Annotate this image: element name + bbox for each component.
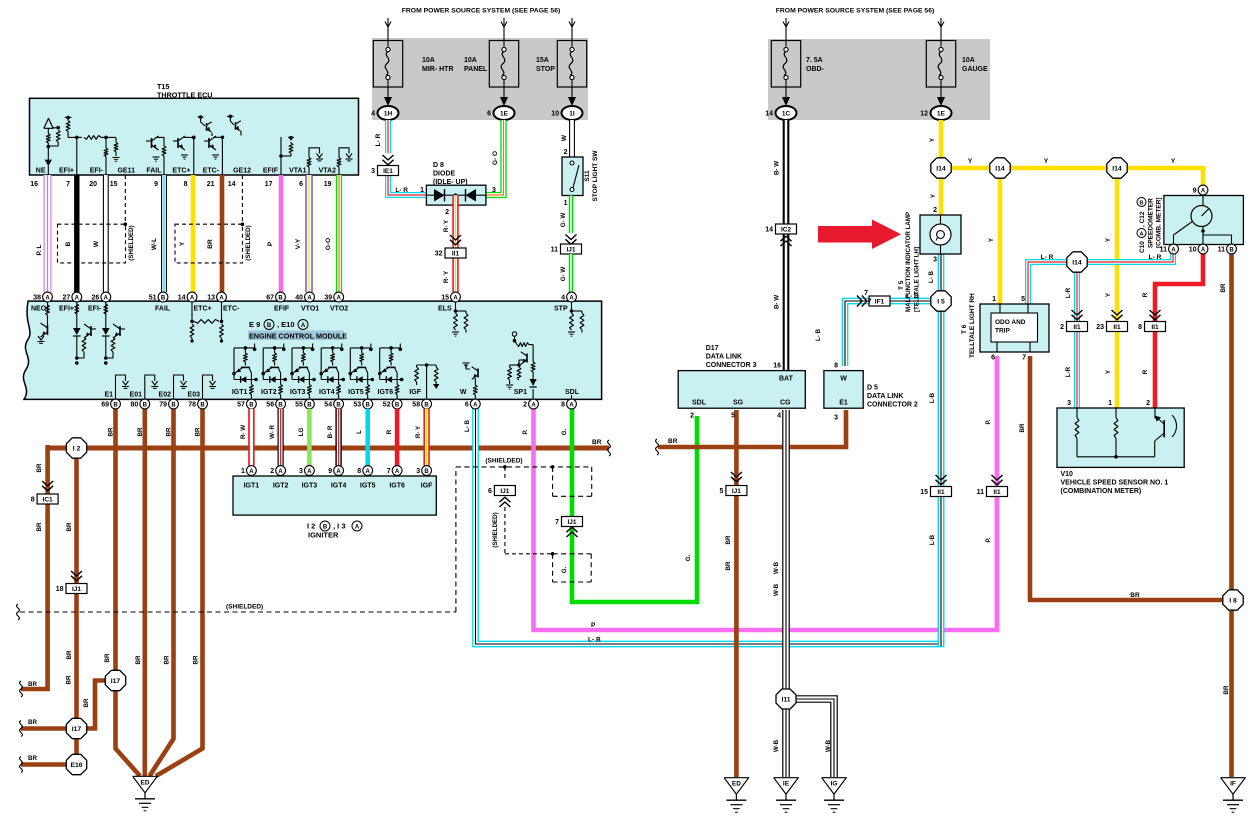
svg-text:11: 11 xyxy=(977,489,985,496)
svg-text:(SHIELDED): (SHIELDED) xyxy=(485,458,522,465)
svg-text:80: 80 xyxy=(131,402,139,409)
svg-text:W: W xyxy=(561,134,568,141)
connector IE1 xyxy=(378,166,399,176)
svg-text:ETC-: ETC- xyxy=(203,168,220,175)
svg-text:STOP: STOP xyxy=(536,66,555,73)
svg-text:W: W xyxy=(840,376,847,383)
wire LG IGT3 xyxy=(307,409,312,466)
svg-text:ETC+: ETC+ xyxy=(194,306,212,313)
svg-text:CONNECTOR 2: CONNECTOR 2 xyxy=(867,402,918,409)
svg-text:8: 8 xyxy=(561,402,565,409)
svg-text:SG: SG xyxy=(733,400,744,407)
svg-text:C10: C10 xyxy=(1139,241,1146,253)
ECM bottom pin 55B xyxy=(305,399,315,409)
svg-text:D 8: D 8 xyxy=(433,162,444,169)
svg-text:OBD-: OBD- xyxy=(806,66,825,73)
svg-text:W: W xyxy=(93,240,100,247)
svg-text:W: W xyxy=(460,389,467,396)
svg-text:11: 11 xyxy=(551,247,559,254)
svg-text:E01: E01 xyxy=(130,392,143,399)
svg-text:L-B: L-B xyxy=(929,392,936,403)
svg-text:12: 12 xyxy=(920,111,928,118)
svg-text:BR: BR xyxy=(193,655,200,664)
break BR to D5 xyxy=(656,439,659,455)
node I5 xyxy=(931,291,951,311)
svg-text:IGT6: IGT6 xyxy=(389,483,405,490)
svg-text:A: A xyxy=(307,469,312,475)
svg-text:B- R: B- R xyxy=(327,425,334,438)
ECM bottom pin 80B xyxy=(140,399,150,409)
svg-text:40: 40 xyxy=(295,295,303,302)
svg-text:BR: BR xyxy=(36,463,43,472)
svg-text:10A: 10A xyxy=(962,57,975,64)
T15 ETC- upper transistor xyxy=(229,115,233,119)
svg-text:IGT1: IGT1 xyxy=(232,389,248,396)
svg-text:1: 1 xyxy=(420,187,424,194)
connector 1E left xyxy=(494,106,515,120)
svg-text:A: A xyxy=(219,295,224,301)
svg-text:15A: 15A xyxy=(536,57,549,64)
II1 column chevrons and boxes xyxy=(1072,310,1083,315)
connector II1 32 xyxy=(445,248,466,258)
svg-text:FROM POWER SOURCE SYSTEM (SEE: FROM POWER SOURCE SYSTEM (SEE PAGE 56) xyxy=(402,8,561,15)
svg-text:3: 3 xyxy=(492,187,496,194)
ECM W cell xyxy=(474,395,476,399)
T15 NE diode xyxy=(45,160,52,167)
svg-text:FAIL: FAIL xyxy=(146,168,162,175)
svg-text:1H: 1H xyxy=(384,111,393,118)
ECM IGF cell xyxy=(416,365,418,367)
svg-text:I 2: I 2 xyxy=(307,522,315,531)
svg-text:BR: BR xyxy=(592,439,602,446)
svg-text:39: 39 xyxy=(324,295,332,302)
fuse 10A GAUGE xyxy=(926,41,955,88)
ECM bottom pin 2A xyxy=(529,399,539,409)
svg-text:MIR- HTR: MIR- HTR xyxy=(422,66,454,73)
ground ED left xyxy=(133,776,158,793)
svg-text:7: 7 xyxy=(387,468,391,475)
svg-text:R: R xyxy=(1142,292,1149,297)
ECM top pin 38A xyxy=(43,292,53,302)
svg-text:II1: II1 xyxy=(452,251,460,258)
svg-text:11: 11 xyxy=(1218,247,1226,254)
svg-text:I 5: I 5 xyxy=(937,298,945,305)
svg-text:W- R: W- R xyxy=(269,424,276,438)
ECM bottom pin 78B xyxy=(198,399,208,409)
svg-text:1I: 1I xyxy=(569,111,575,118)
svg-text:EFIF: EFIF xyxy=(274,306,290,313)
svg-text:IE: IE xyxy=(783,781,790,788)
svg-text:IJ1: IJ1 xyxy=(732,488,741,495)
svg-text:BR: BR xyxy=(28,755,37,762)
wire R IGT6 xyxy=(395,409,400,466)
svg-text:A: A xyxy=(45,295,50,301)
svg-text:67: 67 xyxy=(266,295,274,302)
ODO and trip box xyxy=(980,304,1049,352)
svg-text:S11: S11 xyxy=(584,170,591,182)
II1 on P wire xyxy=(992,475,1003,480)
T15 VTA1 cell xyxy=(308,167,310,175)
svg-text:VTO2: VTO2 xyxy=(330,306,348,313)
svg-text:EFI-: EFI- xyxy=(90,168,104,175)
ground ED center xyxy=(724,778,749,795)
svg-text:BR: BR xyxy=(66,650,73,659)
wire G-O VTA2 to ECM xyxy=(336,175,341,292)
svg-text:L- B: L- B xyxy=(928,270,935,283)
svg-text:8: 8 xyxy=(31,497,35,504)
svg-text:2: 2 xyxy=(690,413,694,420)
svg-text:VTA1: VTA1 xyxy=(289,168,306,175)
svg-text:BR: BR xyxy=(66,522,73,531)
svg-text:R- Y: R- Y xyxy=(415,425,422,438)
V10 resistor 2 xyxy=(1115,408,1117,418)
igniter pin 3A xyxy=(305,466,315,476)
T15 EFIF cell xyxy=(280,137,282,175)
svg-text:I14: I14 xyxy=(1112,165,1122,172)
svg-text:A: A xyxy=(278,469,283,475)
wire P-L NE to NEO xyxy=(44,175,51,292)
D5 DLC2 box xyxy=(824,371,863,409)
svg-text:BR: BR xyxy=(725,535,732,544)
ECM bottom pin 79B xyxy=(169,399,179,409)
svg-text:E03: E03 xyxy=(188,392,201,399)
red arrow indicator xyxy=(818,220,901,250)
svg-text:16: 16 xyxy=(773,363,781,370)
ECM bottom pin 8A xyxy=(567,399,577,409)
wire BR E03 pin to ED ground xyxy=(156,404,203,776)
svg-text:II1: II1 xyxy=(1151,324,1159,331)
svg-text:15: 15 xyxy=(110,181,118,188)
svg-text:BR: BR xyxy=(668,438,678,445)
svg-text:(SHIELDED): (SHIELDED) xyxy=(245,225,252,260)
svg-text:P. L: P. L xyxy=(36,244,43,255)
svg-text:ED: ED xyxy=(140,779,149,786)
node I17 upper xyxy=(105,670,125,690)
svg-text:IGT2: IGT2 xyxy=(261,389,277,396)
wire Y I14 to MIL lamp xyxy=(939,168,944,215)
svg-text:IGF: IGF xyxy=(409,389,421,396)
shield dashed GE11 xyxy=(124,175,126,224)
svg-text:SDL: SDL xyxy=(565,389,580,396)
svg-text:IE1: IE1 xyxy=(383,168,393,175)
wire Y I14 to ODO pin1 xyxy=(998,168,1003,304)
svg-text:P: P xyxy=(591,622,596,629)
speedometer box xyxy=(1164,196,1244,245)
shield dashed box around G wire upper xyxy=(552,467,554,496)
svg-text:10: 10 xyxy=(551,111,559,118)
svg-text:IG: IG xyxy=(831,781,838,788)
svg-text:10A: 10A xyxy=(464,57,477,64)
svg-text:A: A xyxy=(75,295,80,301)
igniter pin 9A xyxy=(334,466,344,476)
svg-text:R: R xyxy=(386,429,393,434)
svg-text:5: 5 xyxy=(731,413,735,420)
svg-text:1E: 1E xyxy=(937,111,946,118)
svg-text:8: 8 xyxy=(357,468,361,475)
svg-text:A: A xyxy=(1201,188,1206,194)
node I8 xyxy=(1223,590,1243,610)
svg-text:B: B xyxy=(249,402,254,408)
svg-text:[COMB. METER]: [COMB. METER] xyxy=(1156,197,1163,248)
svg-text:BR: BR xyxy=(108,427,115,436)
ground IE xyxy=(774,778,799,795)
svg-text:ETC-: ETC- xyxy=(223,306,240,313)
svg-text:L- B: L- B xyxy=(464,419,471,432)
engine control module box xyxy=(23,301,601,399)
svg-text:B: B xyxy=(161,295,166,301)
svg-text:D17: D17 xyxy=(706,345,719,352)
T15 rail resistor xyxy=(84,136,101,140)
svg-text:(SHIELDED): (SHIELDED) xyxy=(492,512,499,547)
wire Y ETC+ to ECM xyxy=(191,175,196,292)
svg-text:L- B: L- B xyxy=(815,328,822,341)
svg-text:6: 6 xyxy=(299,181,303,188)
ECM ELS resistors xyxy=(455,302,457,311)
svg-text:L-R: L-R xyxy=(1065,287,1072,298)
svg-text:ENGINE CONTROL MODULE: ENGINE CONTROL MODULE xyxy=(249,332,347,341)
svg-text:G- W: G- W xyxy=(560,213,567,228)
svg-text:IJ1: IJ1 xyxy=(500,488,509,495)
fuse 10A PANEL xyxy=(489,41,518,88)
svg-text:E1: E1 xyxy=(839,400,848,407)
svg-text:IGT3: IGT3 xyxy=(290,389,306,396)
svg-text:L- B: L- B xyxy=(588,637,601,644)
svg-text:G- W: G- W xyxy=(560,267,567,282)
svg-text:13: 13 xyxy=(207,295,215,302)
svg-text:B: B xyxy=(143,402,148,408)
svg-text:L- R: L- R xyxy=(1149,254,1162,261)
ECM bottom pin 53B xyxy=(363,399,373,409)
break BR bus right end xyxy=(608,440,611,456)
svg-text:B- W: B- W xyxy=(774,161,781,175)
svg-text:P.: P. xyxy=(985,537,992,542)
wire L-B W-pin loop ECM to I5 xyxy=(476,311,942,644)
svg-text:Y: Y xyxy=(968,158,973,165)
igniter pin 8A xyxy=(363,466,373,476)
svg-text:7: 7 xyxy=(555,519,559,526)
svg-text:A: A xyxy=(355,525,360,531)
svg-text:1: 1 xyxy=(1108,400,1112,407)
wire BR ODO pin7 to I8 xyxy=(1030,356,1233,600)
wire P EFIF to ECM xyxy=(279,175,284,292)
svg-text:18: 18 xyxy=(56,586,64,593)
svg-text:5: 5 xyxy=(1021,296,1025,303)
connector 1I xyxy=(562,106,583,120)
wire BR I2 down through IJ1 to I17 and E16 xyxy=(74,448,79,765)
svg-text:BR: BR xyxy=(207,239,214,249)
svg-text:A: A xyxy=(395,469,400,475)
svg-text:SP1: SP1 xyxy=(514,389,527,396)
wire W fuse STOP to S11 xyxy=(570,120,575,157)
svg-text:B: B xyxy=(424,402,429,408)
svg-text:STP: STP xyxy=(554,306,568,313)
svg-text:10: 10 xyxy=(1189,247,1197,254)
svg-text:V-Y: V-Y xyxy=(295,238,302,249)
svg-text:A: A xyxy=(190,295,195,301)
T15 EFI- cell xyxy=(105,137,107,148)
svg-text:L- R: L- R xyxy=(395,187,408,194)
T15 ETC- cell xyxy=(221,137,223,175)
svg-text:L-R: L-R xyxy=(1065,366,1072,377)
svg-text:8: 8 xyxy=(184,181,188,188)
svg-text:2: 2 xyxy=(1060,324,1064,331)
svg-text:2: 2 xyxy=(564,149,568,156)
wire BR break to I17 xyxy=(21,726,68,731)
svg-text:54: 54 xyxy=(324,402,332,409)
svg-text:7: 7 xyxy=(868,299,872,306)
svg-text:EFIF: EFIF xyxy=(263,168,279,175)
svg-text:9: 9 xyxy=(154,181,158,188)
svg-text:Y: Y xyxy=(179,241,186,246)
svg-text:R- W: R- W xyxy=(240,425,247,439)
T15 NE cell amplifier xyxy=(44,118,53,128)
ECM SP1 cell xyxy=(532,389,534,399)
svg-text:Y: Y xyxy=(1171,158,1176,165)
wire Y I14 to II1 and V10 pin1 xyxy=(1115,168,1120,322)
ECM bottom pin 57B xyxy=(247,399,257,409)
svg-text:G-O: G-O xyxy=(325,238,332,250)
svg-text:BR: BR xyxy=(195,427,202,436)
svg-text:I14: I14 xyxy=(1072,259,1082,266)
svg-text:BR: BR xyxy=(166,427,173,436)
svg-text:I17: I17 xyxy=(111,678,121,685)
igniter box xyxy=(233,476,436,515)
svg-text:(SHIELDED): (SHIELDED) xyxy=(226,604,263,611)
svg-text:Y: Y xyxy=(1044,158,1049,165)
ground IF xyxy=(1221,778,1246,795)
wire BR bus horizontal from I2 to break xyxy=(48,446,609,451)
svg-text:A: A xyxy=(1171,247,1176,253)
chevron to II1 xyxy=(450,235,461,240)
svg-text:7: 7 xyxy=(66,181,70,188)
svg-text:1: 1 xyxy=(564,200,568,207)
connector IJ1 18 xyxy=(66,584,87,594)
svg-text:14: 14 xyxy=(178,295,186,302)
svg-text:B: B xyxy=(1140,200,1144,206)
ECM bottom pin 58B xyxy=(422,399,432,409)
svg-text:7. 5A: 7. 5A xyxy=(806,57,823,64)
engine control module title xyxy=(248,331,344,341)
svg-text:ETC+: ETC+ xyxy=(172,168,190,175)
break BR left 2 xyxy=(20,721,23,737)
svg-text:52: 52 xyxy=(383,402,391,409)
svg-text:A: A xyxy=(569,402,574,408)
svg-text:ED: ED xyxy=(732,781,741,788)
svg-text:2: 2 xyxy=(270,468,274,475)
V10 resistor 1 xyxy=(1076,408,1078,418)
svg-text:T 6: T 6 xyxy=(961,324,968,334)
svg-text:6: 6 xyxy=(465,402,469,409)
svg-text:69: 69 xyxy=(101,402,109,409)
svg-text:14: 14 xyxy=(765,111,773,118)
svg-text:B: B xyxy=(267,323,272,329)
wire L-R II1 to V10 pin3 xyxy=(1074,331,1079,408)
svg-text:BR: BR xyxy=(104,653,111,662)
fuse 7.5A OBD xyxy=(771,41,800,88)
svg-text:1: 1 xyxy=(992,296,996,303)
svg-text:IGF: IGF xyxy=(421,483,433,490)
V10 bottom rail xyxy=(1077,456,1155,458)
power source band right xyxy=(768,39,990,120)
svg-text:W-B: W-B xyxy=(825,739,832,752)
svg-text:L- R: L- R xyxy=(375,133,382,146)
svg-text:B: B xyxy=(307,402,312,408)
svg-text:G- O: G- O xyxy=(492,151,499,165)
shield box around Y and BR wires xyxy=(175,224,243,263)
svg-text:A: A xyxy=(336,469,341,475)
svg-text:A: A xyxy=(1140,231,1144,237)
T15 ETC+ cell xyxy=(193,137,195,175)
svg-text:BR: BR xyxy=(83,698,90,707)
svg-text:NEO: NEO xyxy=(31,306,47,313)
svg-text:SDL: SDL xyxy=(692,400,707,407)
svg-text:BR: BR xyxy=(66,675,73,684)
wire L-B I5 chain to IF1 and D5 xyxy=(845,301,930,366)
svg-text:EFI-: EFI- xyxy=(88,306,102,313)
svg-text:55: 55 xyxy=(295,402,303,409)
svg-text:D 5: D 5 xyxy=(867,385,878,392)
wire BR ETC- to ECM xyxy=(220,175,225,292)
svg-text:G.: G. xyxy=(561,428,568,435)
svg-text:LG: LG xyxy=(298,428,305,437)
svg-text:A: A xyxy=(569,295,574,301)
wire BR E02 pin to ED ground xyxy=(150,404,174,776)
svg-text:BR: BR xyxy=(1220,283,1227,292)
connector IJ1 7 on G wire xyxy=(562,517,583,527)
svg-text:GE12: GE12 xyxy=(233,168,251,175)
ECM top pin 27A xyxy=(72,292,82,302)
wire BR left branch to IC1 and break xyxy=(21,445,48,689)
node I2 xyxy=(66,438,86,458)
wire G SDL loop ECM to DLC3 xyxy=(572,404,697,602)
svg-text:W-B: W-B xyxy=(773,561,780,574)
svg-text:3: 3 xyxy=(933,257,937,264)
svg-text:1E: 1E xyxy=(500,111,509,118)
svg-text:19: 19 xyxy=(324,181,332,188)
svg-text:IGT5: IGT5 xyxy=(360,483,376,490)
ECM top pin 14A xyxy=(187,292,197,302)
power source band left xyxy=(372,38,588,120)
wire L IGT5 xyxy=(365,409,370,466)
connector IC1 xyxy=(37,494,58,504)
svg-text:DATA LINK: DATA LINK xyxy=(867,393,903,400)
wire B-R IGT4 xyxy=(336,409,341,466)
V10 transistor xyxy=(1154,408,1156,419)
wire W-L FAIL to ECM xyxy=(161,175,166,292)
node I17 lower xyxy=(66,718,86,738)
wire BR break to E16 xyxy=(21,762,68,767)
svg-text:, C12: , C12 xyxy=(1139,211,1146,227)
T15 EFI+ cell xyxy=(66,116,70,120)
svg-text:G.: G. xyxy=(685,554,692,561)
svg-text:I14: I14 xyxy=(995,165,1005,172)
wire L-R fuse MIR-HTR to IE1 to diode xyxy=(385,120,390,153)
ECM top pin 39A xyxy=(334,292,344,302)
svg-text:II1: II1 xyxy=(1113,324,1121,331)
wire BR I17 branch xyxy=(68,681,116,729)
svg-text:51: 51 xyxy=(149,295,157,302)
svg-text:NE: NE xyxy=(36,168,46,175)
svg-text:1C: 1C xyxy=(782,111,791,118)
svg-text:VTA2: VTA2 xyxy=(319,168,336,175)
svg-text:58: 58 xyxy=(412,402,420,409)
svg-text:A: A xyxy=(453,295,458,301)
svg-text:G.: G. xyxy=(561,566,568,573)
node I11 xyxy=(776,689,796,709)
svg-text:2: 2 xyxy=(1146,400,1150,407)
ECM EFI+ input xyxy=(76,302,78,328)
svg-text:20: 20 xyxy=(89,181,97,188)
